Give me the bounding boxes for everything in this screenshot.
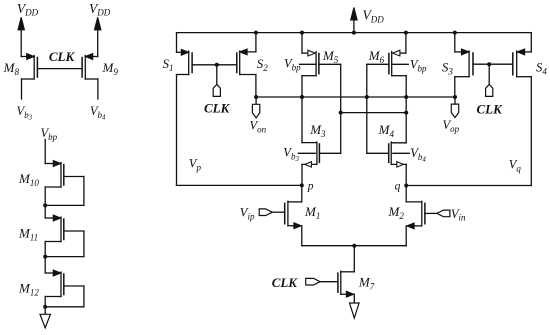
svg-text:Vq: Vq [509, 158, 522, 174]
svg-text:M5: M5 [322, 48, 339, 65]
svg-text:Vb3: Vb3 [17, 104, 33, 122]
svg-text:M7: M7 [358, 275, 375, 292]
svg-text:CLK: CLK [204, 101, 231, 116]
svg-text:Vip: Vip [240, 206, 255, 222]
svg-text:CLK: CLK [49, 49, 76, 64]
svg-text:S2: S2 [257, 56, 269, 73]
svg-text:CLK: CLK [272, 275, 299, 290]
svg-text:S3: S3 [442, 60, 454, 77]
svg-text:Vbp: Vbp [410, 58, 427, 74]
svg-text:Vb3: Vb3 [283, 146, 299, 164]
svg-text:M10: M10 [18, 171, 39, 188]
svg-text:M6: M6 [368, 48, 385, 65]
svg-text:M11: M11 [18, 226, 38, 243]
svg-text:VDD: VDD [363, 8, 385, 25]
svg-text:M1: M1 [304, 204, 320, 221]
svg-text:Vop: Vop [443, 118, 460, 134]
svg-text:CLK: CLK [477, 102, 504, 117]
svg-text:Vbp: Vbp [284, 57, 301, 73]
svg-text:M12: M12 [18, 281, 39, 298]
svg-text:M9: M9 [102, 60, 119, 77]
svg-text:Von: Von [250, 119, 267, 135]
svg-text:M2: M2 [388, 204, 405, 221]
svg-text:VDD: VDD [17, 1, 39, 18]
svg-text:M4: M4 [378, 122, 395, 139]
svg-text:S4: S4 [536, 60, 548, 77]
svg-text:M8: M8 [3, 60, 20, 77]
svg-text:S1: S1 [163, 56, 174, 73]
svg-text:p: p [307, 181, 314, 193]
svg-text:Vb4: Vb4 [410, 146, 426, 164]
svg-text:Vb4: Vb4 [90, 104, 106, 122]
svg-text:Vp: Vp [189, 157, 202, 173]
svg-text:Vbp: Vbp [41, 126, 58, 142]
svg-text:M3: M3 [309, 122, 326, 139]
svg-text:Vin: Vin [451, 207, 466, 223]
svg-text:VDD: VDD [89, 1, 111, 18]
svg-text:q: q [395, 181, 401, 193]
